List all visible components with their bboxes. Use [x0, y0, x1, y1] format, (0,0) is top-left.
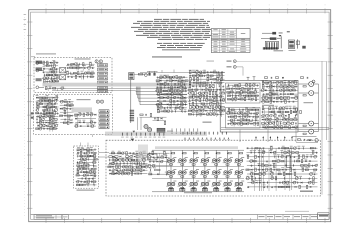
value label [289, 105, 292, 108]
transistor Q68 [192, 106, 195, 109]
transistor Q116 [294, 96, 297, 99]
resistor R4 [54, 64, 56, 67]
diode CR39 [203, 113, 205, 115]
value label [230, 120, 233, 123]
value label [262, 98, 265, 101]
transistor Q136 [276, 126, 279, 129]
wire [247, 169, 318, 171]
resistor R265 [111, 163, 114, 165]
resistor R11 [55, 81, 58, 83]
diode CR45 [273, 86, 275, 88]
capacitor C123 [285, 169, 287, 171]
node junction [207, 82, 208, 83]
emitter resistor R511 [181, 176, 184, 177]
value label [164, 108, 167, 111]
resistor R80 [180, 87, 183, 89]
diode CR16 [87, 125, 89, 127]
transistor Q69 [196, 106, 199, 109]
value label [159, 77, 162, 80]
bottom resistor fill [192, 189, 196, 190]
value label [244, 96, 247, 99]
transistor Q163 [130, 169, 132, 171]
node junction [88, 168, 89, 169]
wire [148, 152, 169, 154]
resistor R269 [119, 165, 121, 168]
capacitor C41 [221, 71, 223, 73]
resistor R132 [206, 95, 208, 98]
transistor Q10 [84, 72, 87, 75]
value label [173, 156, 176, 159]
connector bracket line [280, 36, 282, 48]
ground [314, 173, 316, 174]
resistor R219 [277, 122, 279, 125]
wire [220, 72, 222, 117]
relay K1 [129, 73, 134, 80]
value label [143, 150, 146, 153]
diode CR48 [284, 93, 286, 95]
power transistor Q522a [190, 182, 193, 185]
value label [173, 168, 176, 171]
transistor Q166 [118, 172, 120, 174]
value label [258, 179, 261, 182]
node junction [162, 111, 163, 112]
resistor R59 [63, 122, 66, 124]
value label [87, 146, 90, 149]
wire [189, 82, 224, 84]
value label [252, 106, 255, 109]
output transistor Q31 [309, 121, 314, 126]
node junction [171, 97, 172, 98]
transistor Q173 [262, 151, 265, 154]
resistor R168 [244, 98, 246, 101]
input jack J3 [36, 62, 39, 65]
capacitor C76 [294, 123, 296, 125]
supply bundle wires [221, 127, 329, 129]
value label [262, 94, 265, 97]
resistor R285 [217, 152, 220, 154]
diode CR49 [287, 93, 289, 95]
wire [273, 108, 275, 129]
capacitor C124 [278, 182, 280, 184]
transistor Q89 [234, 98, 237, 101]
transistor Q134 [265, 126, 268, 129]
value label [290, 145, 293, 148]
resistor R273 [131, 172, 133, 175]
node junction [185, 104, 186, 105]
resistor R318 [302, 168, 304, 171]
transistor Q18 [39, 115, 42, 118]
resistor R245 [83, 168, 86, 170]
transistor Q148 [76, 180, 78, 182]
emitter resistor R500 [170, 164, 173, 165]
diode CR79 [305, 160, 307, 162]
transistor Q92 [237, 112, 240, 115]
value label [270, 171, 273, 174]
resistor R111 [217, 78, 219, 81]
diode CR92 [295, 186, 297, 188]
capacitor C112 [262, 147, 264, 149]
resistor R322 [278, 173, 281, 175]
diode CR85 [290, 173, 292, 175]
value label 2 [200, 185, 203, 188]
transistor Q52 [199, 71, 202, 74]
capacitor C17 [64, 115, 66, 117]
value label [196, 156, 199, 159]
transistor Q30 [78, 113, 81, 116]
value label [283, 171, 286, 174]
diode CR51 [273, 101, 275, 103]
diode CR19 [173, 80, 175, 82]
power transistor Q531a [201, 171, 204, 174]
diode CR56 [262, 119, 264, 121]
resistor R222 [269, 126, 272, 128]
capacitor C117 [306, 156, 308, 158]
diode CR47 [276, 89, 278, 91]
resistor R236 [80, 155, 83, 157]
resistor R1 [43, 61, 45, 64]
value label [70, 64, 73, 67]
value label [306, 153, 309, 156]
resistor R233 [77, 149, 80, 151]
transistor Q120 [262, 115, 264, 117]
border zone tick marks top [45, 8, 47, 13]
value label [75, 115, 78, 118]
capacitor C102 [116, 169, 118, 171]
diode CR8 [46, 122, 48, 124]
resistor R62 [83, 113, 85, 116]
wire [284, 149, 286, 190]
value label [160, 74, 163, 77]
value label [188, 86, 191, 89]
node junction [278, 156, 279, 157]
transistor Q98 [240, 119, 243, 122]
capacitor C40 [217, 71, 219, 73]
resistor R193 [284, 86, 287, 88]
wire [77, 171, 97, 173]
diode CR27 [164, 100, 166, 102]
transistor Q154 [125, 158, 128, 161]
value label [250, 149, 253, 152]
transistor Q82 [213, 113, 216, 116]
value label [275, 105, 278, 108]
resistor R234 [87, 149, 90, 151]
value label [156, 104, 159, 107]
node junction [294, 161, 295, 162]
table header row shading [211, 38, 250, 40]
wire [60, 122, 74, 124]
diode CR58 [84, 149, 86, 151]
node junction [196, 103, 197, 104]
bottom resistor fill [214, 189, 218, 190]
ground [263, 186, 265, 187]
resistor R267 [108, 166, 111, 168]
capacitor C58 [242, 95, 244, 97]
resistor R81 [184, 86, 186, 89]
wire [149, 156, 170, 158]
ground [64, 118, 66, 119]
node junction [153, 157, 154, 158]
ground [69, 101, 71, 102]
value label [93, 159, 96, 162]
wire [234, 85, 236, 102]
capacitor C60 [242, 109, 244, 111]
value label [89, 61, 92, 64]
revision table [34, 215, 62, 219]
value label [192, 93, 195, 96]
resistor R157 [241, 91, 243, 94]
value label [176, 84, 179, 87]
power transistor Q501b [172, 171, 175, 174]
resistor R305 [301, 160, 303, 163]
resistor R26 [53, 88, 56, 90]
wire [66, 102, 68, 126]
resistor R123 [205, 93, 208, 95]
transistor Q77 [212, 109, 215, 112]
diode CR50 [292, 97, 294, 99]
capacitor C125 [309, 186, 311, 188]
emitter resistor R530 [203, 164, 206, 165]
grey shading band lower [105, 132, 207, 136]
bank column 3 bottom resistor [191, 188, 196, 191]
diode CR28 [184, 100, 186, 102]
capacitor C10 [36, 119, 38, 121]
resistor R161 [227, 95, 230, 97]
value label [184, 101, 187, 104]
output enclosure corner label [300, 191, 313, 192]
resistor R150 [249, 84, 251, 87]
wire [262, 86, 297, 88]
wire [262, 107, 298, 109]
resistor R291 [286, 147, 289, 149]
resistor R217 [294, 119, 297, 121]
resistor R147 [199, 114, 202, 116]
value label [262, 149, 265, 152]
transistor Q50 [167, 110, 170, 113]
wire [227, 119, 259, 121]
value label [185, 168, 188, 171]
grey scan band grid top [155, 146, 238, 149]
transistor Q128 [283, 118, 286, 121]
wire [254, 110, 256, 127]
wire [228, 116, 259, 118]
node junction [130, 163, 131, 164]
value label [286, 87, 289, 90]
wire [247, 186, 317, 188]
transistor Q102 [247, 122, 249, 124]
value label [262, 124, 265, 127]
ground [153, 161, 155, 162]
emitter resistor R22 [303, 95, 306, 96]
resistor R29 [56, 96, 58, 99]
value label [160, 84, 163, 87]
resistor R306 [261, 165, 264, 167]
resistor R179 [243, 115, 245, 118]
title block cells [257, 215, 259, 220]
value label [247, 96, 250, 99]
capacitor C79 [270, 77, 272, 79]
value label [149, 167, 152, 170]
capacitor C116 [261, 156, 263, 158]
value label [180, 101, 183, 104]
resistor R261 [141, 155, 143, 158]
value label [280, 83, 283, 86]
resistor R167 [240, 99, 243, 101]
value label [153, 167, 156, 170]
value label [157, 91, 160, 94]
value label [156, 87, 159, 90]
wire [82, 73, 84, 80]
capacitor C83 [90, 149, 92, 151]
resistor R304 [297, 160, 300, 162]
capacitor C13 [43, 128, 45, 130]
resistor R319 [305, 169, 308, 171]
capacitor C108 [149, 161, 151, 163]
transistor Q185 [310, 173, 313, 176]
value label [237, 85, 240, 88]
value label [78, 111, 81, 114]
resistor R262 [143, 156, 146, 158]
wire [157, 107, 187, 109]
value label [295, 175, 298, 178]
value label [281, 166, 284, 169]
value label [77, 162, 80, 165]
diode CR82 [262, 169, 264, 171]
wire [157, 103, 188, 105]
ground [67, 67, 69, 68]
value label [206, 79, 209, 82]
resistor R129 [193, 95, 195, 98]
wire [228, 84, 260, 86]
transistor Q45 [173, 96, 175, 98]
capacitor C9 [40, 112, 42, 114]
resistor R82 [160, 89, 162, 92]
wire [43, 71, 59, 73]
transistor Q62 [220, 96, 222, 98]
resistor R282 [183, 152, 186, 154]
value label [249, 92, 252, 95]
wire [228, 98, 259, 100]
transistor Q111 [279, 89, 282, 92]
transistor Q47 [156, 103, 158, 105]
value label [156, 81, 159, 84]
value label [46, 62, 49, 65]
ground [55, 68, 57, 69]
resistor R309 [300, 165, 303, 167]
resistor R181 [243, 120, 246, 122]
capacitor C54 [212, 103, 214, 105]
resistor R48 [49, 125, 52, 127]
wire [60, 115, 74, 117]
value label [246, 175, 249, 178]
emitter resistor R560 [237, 164, 240, 165]
diode CR75 [290, 147, 292, 149]
resistor R67 [160, 77, 163, 79]
resistor R172 [246, 108, 248, 111]
resistor R294 [291, 152, 294, 154]
ground [83, 152, 85, 153]
resistor R312 [246, 169, 249, 171]
ground [168, 87, 170, 88]
value label [91, 70, 94, 73]
resistor R19 [73, 73, 76, 75]
transistor Q39 [167, 89, 170, 92]
value label 2 [211, 185, 214, 188]
wire [137, 117, 139, 130]
value label [278, 109, 281, 112]
value label [250, 171, 253, 174]
capacitor C94 [132, 152, 134, 154]
resistor R211 [278, 111, 281, 113]
diode CR3 [81, 67, 83, 69]
value label [171, 91, 174, 94]
node junction [192, 89, 193, 90]
transistor Q81 [209, 113, 212, 116]
value label [273, 112, 276, 115]
value label [245, 106, 248, 109]
resistor R240 [94, 159, 97, 161]
wire [77, 178, 95, 180]
value label [192, 111, 195, 114]
transistor Q34 [75, 125, 78, 128]
resistor R61 [75, 114, 78, 116]
transistor Q187 [271, 177, 274, 180]
resistor R117 [209, 85, 211, 88]
value label [266, 98, 269, 101]
value label [215, 104, 218, 107]
wire [37, 100, 59, 102]
resistor R77 [165, 82, 167, 85]
wire [80, 143, 82, 147]
emitter resistor R510 [181, 164, 184, 165]
ground [136, 166, 138, 167]
diode CR54 [269, 111, 271, 113]
note near left border [31, 55, 35, 58]
resistor R68 [166, 77, 169, 79]
connector side caption [289, 49, 296, 52]
resistor R160 [250, 92, 253, 94]
resistor R201 [269, 97, 272, 99]
value label [88, 70, 91, 73]
wire [233, 110, 235, 127]
value label [133, 153, 136, 156]
value label 2 [211, 173, 214, 176]
value label [90, 146, 93, 149]
value label [222, 90, 225, 93]
connector side small block [296, 41, 299, 45]
resistor R173 [249, 109, 252, 111]
resistor R259 [126, 156, 129, 158]
resistor R187 [265, 82, 268, 84]
wire [90, 115, 92, 128]
transistor Q6 [49, 80, 52, 83]
resistor R228 [300, 77, 303, 79]
resistor R87 [167, 94, 170, 96]
transistor Q146 [93, 171, 95, 173]
ground [228, 116, 230, 117]
transistor Q140 [80, 158, 83, 161]
node junction [252, 120, 253, 121]
resistor R327 [275, 177, 277, 180]
transistor Q101 [237, 122, 240, 125]
capacitor C68 [265, 93, 267, 95]
ground [148, 152, 150, 153]
resistor R333 [299, 185, 301, 188]
resistor R190 [263, 85, 265, 88]
value label [276, 98, 279, 101]
diode CR91 [275, 186, 277, 188]
ground [286, 107, 288, 108]
diode CR57 [282, 77, 284, 79]
